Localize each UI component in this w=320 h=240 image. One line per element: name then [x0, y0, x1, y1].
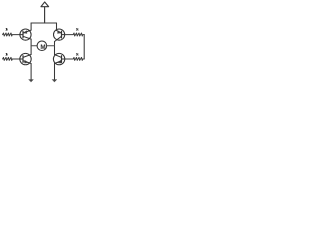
- transistor Q1 (PNP top-left): [20, 29, 31, 40]
- ground arrow right: [52, 80, 57, 83]
- wire left branch upper: [30, 23, 32, 30]
- wire right branch middle: [54, 42, 56, 55]
- wire top rail: [31, 22, 56, 24]
- wire left branch lower to ground: [30, 64, 32, 80]
- svg-text:1k: 1k: [76, 52, 79, 56]
- transistor Q2 (PNP top-right): [54, 29, 65, 42]
- transistor Q3 (NPN bottom-left): [20, 53, 31, 64]
- wire right branch upper: [56, 23, 58, 30]
- transistor Q4 (NPN bottom-right): [53, 53, 64, 64]
- wire left branch middle: [30, 39, 32, 54]
- resistor R4: [65, 57, 85, 60]
- power supply V+ arrow: [41, 2, 49, 23]
- ground arrow left: [29, 80, 34, 83]
- wire right branch lower to ground: [54, 64, 56, 80]
- motor M1: [31, 41, 54, 51]
- resistor R2: [65, 33, 85, 36]
- svg-text:1k: 1k: [5, 52, 8, 56]
- wire right side joining resistors: [83, 35, 85, 59]
- svg-text:1k: 1k: [5, 28, 8, 32]
- resistor R1: [3, 33, 20, 36]
- svg-text:M: M: [40, 44, 45, 51]
- svg-text:1k: 1k: [76, 28, 79, 32]
- resistor R3: [3, 57, 20, 60]
